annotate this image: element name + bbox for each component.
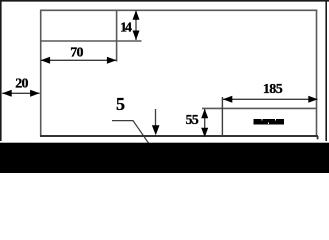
svg-text:70: 70 xyxy=(70,46,83,61)
dimension 70 right arrowhead xyxy=(107,57,117,64)
note 5 vertical pointer line xyxy=(155,109,157,127)
frame top border xyxy=(0,0,329,2)
big rectangle top edge xyxy=(40,9,317,11)
svg-text:20: 20 xyxy=(15,77,28,92)
dimension 20 left arrowhead xyxy=(2,90,12,97)
dimension 55 down arrowhead xyxy=(201,128,208,138)
inner rectangle right edge with extension down xyxy=(116,10,118,62)
dimension 185 right arrowhead xyxy=(308,96,318,103)
dimension 20 line xyxy=(2,92,39,94)
svg-text:55: 55 xyxy=(185,113,198,128)
dimension 20 right arrowhead xyxy=(30,90,39,97)
big rectangle left edge xyxy=(40,10,42,137)
big rectangle bottom edge xyxy=(40,135,318,137)
text blob inside small rectangle xyxy=(254,119,285,125)
leader line of note 5 xyxy=(112,121,149,143)
dimension 55 line xyxy=(204,109,206,137)
big rectangle right edge xyxy=(316,10,318,137)
dimension 185 left arrowhead xyxy=(223,96,233,103)
small rectangle top edge with left extension xyxy=(202,107,317,109)
dimension 70 left arrowhead xyxy=(41,57,51,64)
dimension 14 up arrowhead xyxy=(133,10,140,19)
dimension 14 down arrowhead xyxy=(133,31,140,41)
small rectangle left edge with upper extension xyxy=(221,97,223,137)
note 5 down arrowhead xyxy=(152,125,160,135)
big rectangle bottom-right corner stub xyxy=(317,136,319,139)
black bottom bar xyxy=(0,143,329,173)
inner rectangle bottom edge with right extension xyxy=(40,40,142,42)
frame right border xyxy=(325,0,327,141)
svg-text:185: 185 xyxy=(263,82,283,97)
frame left border xyxy=(0,0,2,141)
svg-text:5: 5 xyxy=(116,94,125,114)
dimension 55 up arrowhead xyxy=(201,109,208,119)
dimension 14 line xyxy=(135,11,137,40)
dimension 185 line xyxy=(223,98,318,100)
dimension 70 line xyxy=(41,59,116,61)
